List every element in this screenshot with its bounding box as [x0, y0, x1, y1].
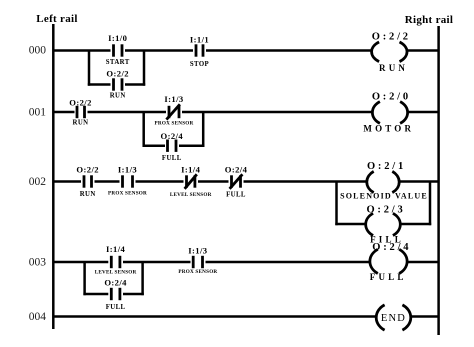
- right rail: [437, 26, 440, 335]
- svg-text:PROX SENSOR: PROX SENSOR: [155, 121, 194, 127]
- svg-text:O:2/1: O:2/1: [367, 161, 406, 172]
- rung number 003: [29, 257, 47, 269]
- contact O:2/2 RUN (rung 001): [69, 98, 92, 127]
- svg-text:FULL: FULL: [226, 192, 246, 199]
- svg-text:PROX SENSOR: PROX SENSOR: [178, 269, 217, 275]
- contact O:2/4 FULL (rung 003 branch): [104, 277, 127, 311]
- coil END: [376, 305, 411, 330]
- svg-text:FULL: FULL: [370, 272, 407, 282]
- svg-text:RUN: RUN: [73, 120, 89, 127]
- svg-text:STOP: STOP: [190, 61, 209, 68]
- wire rung 002: [53, 180, 438, 183]
- contact O:2/2 RUN (seal-in): [106, 69, 129, 100]
- svg-text:Left rail: Left rail: [36, 13, 78, 25]
- coil O:2/4 FULL: [370, 242, 412, 282]
- rung number 002: [29, 176, 47, 188]
- svg-text:O:2/3: O:2/3: [366, 205, 405, 216]
- svg-text:LEVEL SENSOR: LEVEL SENSOR: [170, 192, 212, 198]
- rung number 000: [29, 45, 47, 57]
- left rail label: [36, 13, 78, 25]
- coil O:2/1 SOLENOID VALUE: [340, 161, 428, 201]
- svg-text:MOTOR: MOTOR: [363, 124, 414, 134]
- svg-text:PROX SENSOR: PROX SENSOR: [108, 191, 147, 197]
- wire rung 002 branch: [335, 182, 431, 226]
- svg-text:004: 004: [29, 311, 47, 323]
- svg-text:O:2/0: O:2/0: [372, 92, 411, 103]
- svg-text:START: START: [106, 59, 130, 66]
- svg-text:O:2/4: O:2/4: [372, 242, 411, 253]
- contact O:2/4 FULL (NC, rung 002): [225, 165, 248, 199]
- right rail label: [405, 14, 454, 26]
- svg-text:FULL: FULL: [106, 304, 126, 311]
- svg-text:O:2/4: O:2/4: [161, 131, 184, 141]
- svg-text:I:1/0: I:1/0: [108, 33, 127, 43]
- svg-text:Right rail: Right rail: [405, 14, 454, 26]
- rung number 004: [29, 311, 47, 323]
- svg-text:RUN: RUN: [379, 63, 408, 73]
- svg-text:O:2/2: O:2/2: [76, 165, 99, 175]
- svg-text:I:1/3: I:1/3: [188, 246, 207, 256]
- svg-text:O:2/4: O:2/4: [104, 277, 127, 287]
- svg-text:I:1/4: I:1/4: [106, 244, 125, 254]
- wire rung 003: [53, 261, 438, 264]
- contact I:1/4 LEVEL SENSOR (NC): [170, 165, 212, 198]
- svg-text:000: 000: [29, 45, 47, 57]
- svg-text:002: 002: [29, 176, 47, 188]
- coil O:2/2 RUN: [372, 32, 411, 74]
- wire rung 000: [53, 49, 438, 52]
- contact I:1/1 STOP: [190, 35, 209, 69]
- contact I:1/0 START: [106, 33, 130, 66]
- wire rung 001 branch: [143, 112, 205, 147]
- svg-text:END: END: [381, 313, 406, 324]
- contact O:2/4 FULL (rung 001 branch): [161, 131, 184, 162]
- svg-text:I:1/3: I:1/3: [118, 165, 137, 175]
- contact O:2/2 RUN (rung 002): [76, 165, 99, 199]
- contact I:1/4 LEVEL SENSOR (rung 003): [95, 244, 137, 276]
- svg-text:O:2/2: O:2/2: [69, 98, 92, 108]
- svg-text:LEVEL SENSOR: LEVEL SENSOR: [95, 270, 137, 276]
- rung number 001: [29, 107, 47, 119]
- left rail: [52, 24, 55, 329]
- wire rung 001: [53, 111, 438, 114]
- svg-text:FULL: FULL: [162, 155, 182, 162]
- svg-text:I:1/4: I:1/4: [181, 165, 200, 175]
- svg-text:O:2/2: O:2/2: [106, 69, 129, 79]
- coil O:2/3 FILL: [366, 205, 406, 245]
- svg-text:I:1/3: I:1/3: [164, 94, 183, 104]
- svg-text:RUN: RUN: [110, 93, 126, 100]
- wire rung 000 branch: [88, 51, 145, 86]
- svg-text:RUN: RUN: [80, 191, 96, 198]
- wire rung 003 branch: [83, 262, 143, 295]
- svg-text:I:1/1: I:1/1: [190, 35, 209, 45]
- coil O:2/0 MOTOR: [363, 92, 414, 134]
- contact I:1/3 PROX SENSOR (rung 003): [178, 246, 217, 276]
- svg-text:003: 003: [29, 257, 47, 269]
- contact I:1/3 PROX SENSOR (rung 002): [108, 165, 147, 197]
- wire rung 004: [53, 315, 438, 318]
- contact I:1/3 PROX SENSOR (NC): [155, 94, 194, 127]
- svg-text:O:2/2: O:2/2: [372, 32, 411, 43]
- svg-text:001: 001: [29, 107, 47, 119]
- svg-text:O:2/4: O:2/4: [225, 165, 248, 175]
- svg-text:SOLENOID VALUE: SOLENOID VALUE: [340, 192, 428, 201]
